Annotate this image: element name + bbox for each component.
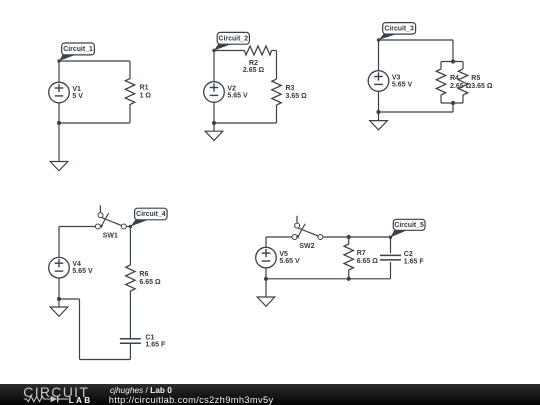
svg-text:R1: R1 bbox=[140, 85, 149, 92]
svg-text:5.65 V: 5.65 V bbox=[227, 92, 248, 99]
svg-text:SW2: SW2 bbox=[299, 243, 314, 250]
svg-text:V5: V5 bbox=[279, 251, 288, 258]
svg-text:6.65 Ω: 6.65 Ω bbox=[357, 258, 379, 265]
svg-text:1 Ω: 1 Ω bbox=[140, 93, 152, 100]
svg-text:V1: V1 bbox=[72, 86, 81, 93]
svg-text:5.65 V: 5.65 V bbox=[72, 268, 93, 275]
svg-text:C1: C1 bbox=[145, 334, 154, 341]
svg-text:5.65 V: 5.65 V bbox=[279, 258, 300, 265]
svg-text:SW1: SW1 bbox=[103, 232, 118, 239]
svg-text:5 V: 5 V bbox=[72, 93, 83, 100]
svg-text:R6: R6 bbox=[139, 271, 148, 278]
svg-text:2.65 Ω: 2.65 Ω bbox=[243, 67, 265, 74]
svg-text:V4: V4 bbox=[72, 261, 81, 268]
svg-text:Circuit_2: Circuit_2 bbox=[219, 35, 249, 42]
svg-text:R2: R2 bbox=[249, 60, 258, 67]
svg-text:3.65 Ω: 3.65 Ω bbox=[286, 93, 308, 100]
svg-text:C2: C2 bbox=[404, 251, 413, 258]
svg-text:V2: V2 bbox=[227, 85, 236, 92]
svg-text:R7: R7 bbox=[357, 250, 366, 257]
svg-text:1.65 F: 1.65 F bbox=[404, 258, 425, 265]
svg-text:R4: R4 bbox=[450, 75, 459, 82]
svg-text:R3: R3 bbox=[286, 85, 295, 92]
svg-text:Circuit_5: Circuit_5 bbox=[394, 222, 424, 229]
svg-text:2.65 Ω: 2.65 Ω bbox=[450, 83, 472, 90]
svg-text:LAB: LAB bbox=[69, 396, 93, 405]
svg-text:3.65 Ω: 3.65 Ω bbox=[471, 83, 493, 90]
svg-text:Circuit_4: Circuit_4 bbox=[136, 211, 166, 218]
svg-text:Circuit_1: Circuit_1 bbox=[63, 46, 93, 53]
svg-text:5.65 V: 5.65 V bbox=[392, 81, 413, 88]
svg-text:Circuit_3: Circuit_3 bbox=[384, 25, 414, 32]
svg-text:V3: V3 bbox=[392, 74, 401, 81]
svg-text:1.65 F: 1.65 F bbox=[145, 341, 166, 348]
svg-text:R5: R5 bbox=[471, 75, 480, 82]
svg-text:6.65 Ω: 6.65 Ω bbox=[139, 279, 161, 286]
